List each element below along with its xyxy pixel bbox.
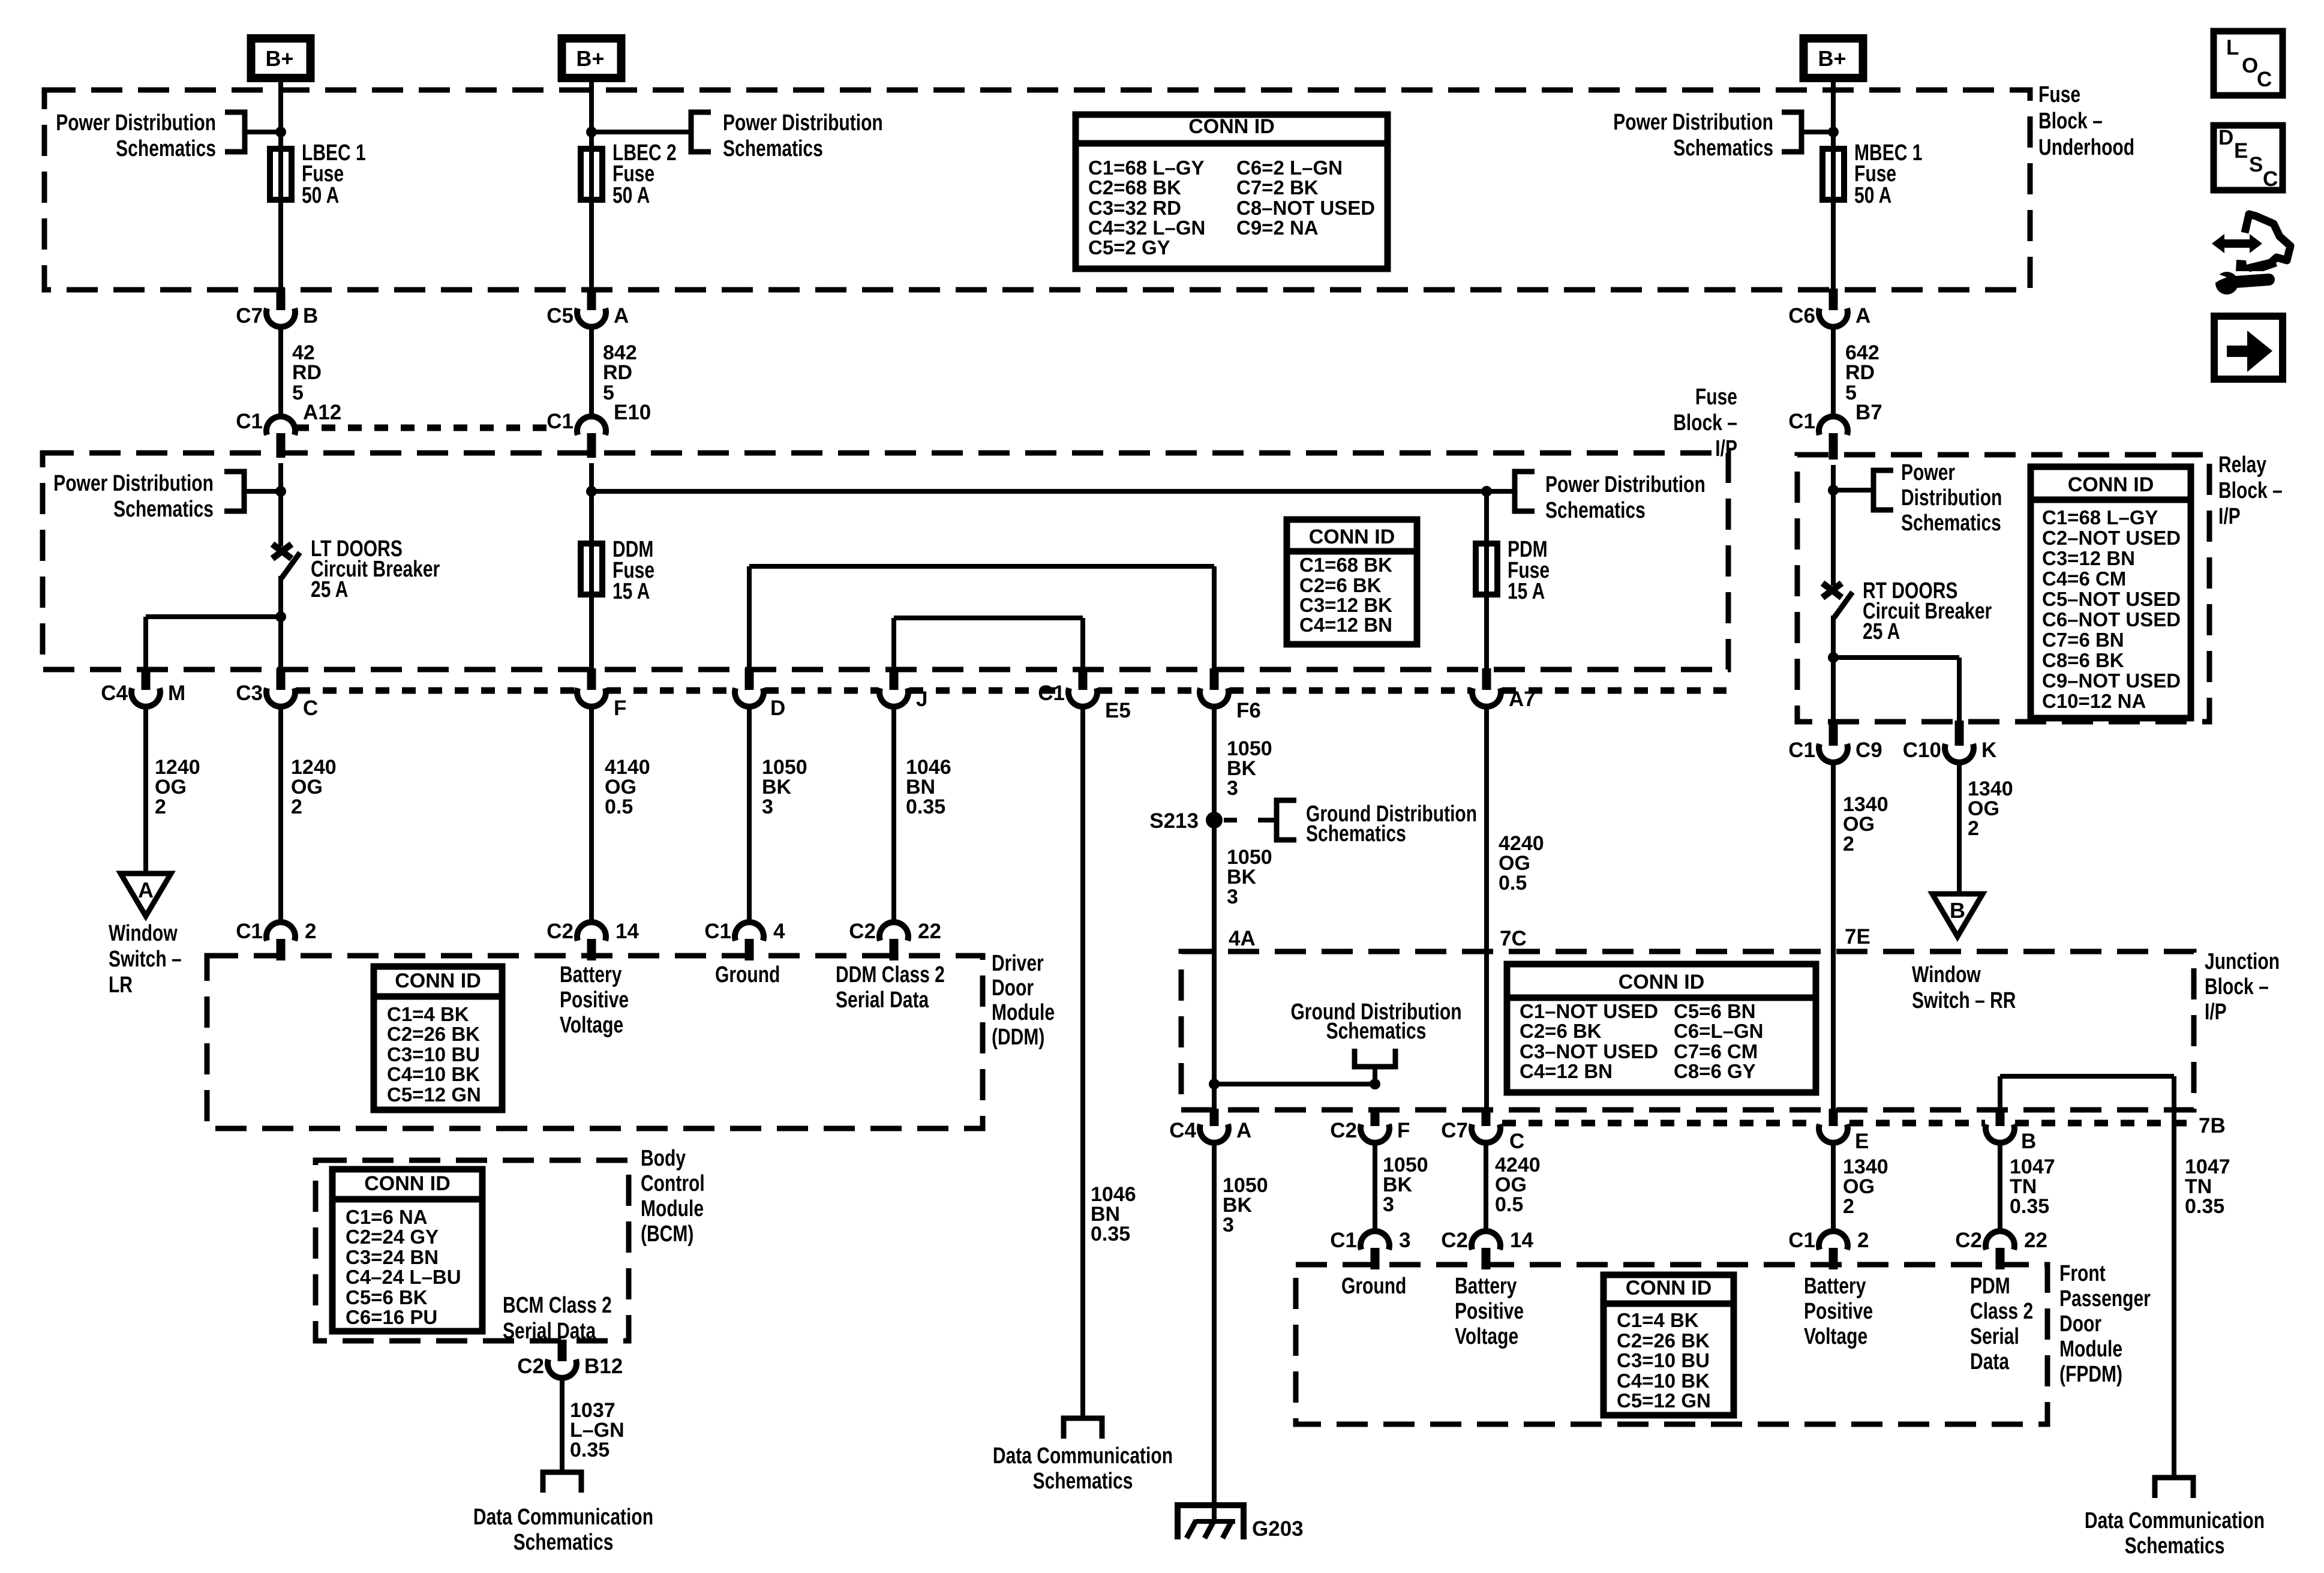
svg-text:C5: C5 (547, 304, 574, 328)
svg-text:Control: Control (641, 1171, 705, 1196)
svg-text:E: E (1855, 1130, 1869, 1153)
svg-text:C1=4 BK: C1=4 BK (1617, 1309, 1699, 1331)
module box: Front Passenger Door Module (FPDM) (1296, 1265, 2047, 1424)
svg-text:Relay: Relay (2218, 452, 2266, 478)
svg-text:C9: C9 (1855, 739, 1882, 762)
connector pin J (879, 668, 927, 711)
module box: Body Control Module (BCM) (316, 1160, 629, 1341)
power terminal B+ (MBEC 1 feed) (1804, 38, 1863, 78)
table CONN ID (DDM) (374, 966, 502, 1110)
svg-text:Power Distribution: Power Distribution (56, 110, 216, 136)
ground G203 symbol (1178, 1505, 1244, 1539)
icon: service wrench with arrows (2208, 214, 2290, 295)
svg-text:C2: C2 (849, 920, 876, 943)
junction node PDM fuse power tap (1481, 486, 1492, 497)
svg-text:B7: B7 (1855, 401, 1882, 424)
svg-text:Positive: Positive (1804, 1299, 1873, 1324)
svg-text:C4=10 BK: C4=10 BK (1617, 1370, 1710, 1392)
block box: Relay Block - I/P (1797, 455, 2209, 722)
fuse LBEC 2 50 A (581, 146, 602, 203)
icon: LOC box (2214, 31, 2283, 95)
block box: Fuse Block - I/P (43, 453, 1728, 670)
svg-text:Battery: Battery (1804, 1274, 1866, 1299)
svg-text:C8–NOT USED: C8–NOT USED (1236, 197, 1375, 219)
wire into DDM fuse (589, 463, 594, 541)
svg-text:2: 2 (291, 795, 302, 818)
svg-text:B+: B+ (265, 46, 293, 71)
svg-text:C9–NOT USED: C9–NOT USED (2042, 670, 2181, 692)
junction node LT DOORS branch (275, 611, 286, 622)
connector C4 pin M (101, 668, 185, 707)
reference bracket Power Distribution (I/P left) (224, 472, 244, 511)
svg-text:14: 14 (1510, 1229, 1533, 1252)
svg-text:Data Communication: Data Communication (993, 1443, 1173, 1469)
svg-text:C1=6 NA: C1=6 NA (346, 1206, 428, 1228)
connector C3 pin C (236, 668, 318, 720)
wire down to connector J (891, 618, 896, 670)
wire 1047 TN 0.35 (to FPDM) (1998, 1143, 2002, 1231)
wire to power distribution bracket (PDM) (1487, 489, 1515, 494)
wire bracket stem to ground tie (1373, 1067, 1377, 1084)
circuit breaker LT DOORS contact mark (272, 544, 292, 559)
svg-text:0.35: 0.35 (906, 795, 945, 818)
connector face dotted line F-D (607, 688, 734, 694)
svg-text:Schematics: Schematics (2125, 1533, 2225, 1559)
svg-text:S: S (2249, 153, 2263, 176)
wire into RT DOORS circuit breaker (1831, 465, 1836, 586)
svg-text:C10=12 NA: C10=12 NA (2042, 690, 2146, 712)
connector face dotted line C-F (296, 688, 576, 694)
svg-text:Window: Window (109, 921, 178, 946)
svg-text:CONN ID: CONN ID (1188, 115, 1275, 138)
svg-text:C9=2 NA: C9=2 NA (1236, 217, 1319, 239)
svg-text:C3–NOT USED: C3–NOT USED (1520, 1040, 1658, 1062)
reference bracket Power Distribution (LBEC 1) (225, 112, 245, 152)
connector C6 pin A (1788, 289, 1870, 328)
svg-text:CONN ID: CONN ID (1626, 1277, 1712, 1299)
svg-text:C2: C2 (1330, 1119, 1357, 1142)
svg-text:C1: C1 (1038, 682, 1065, 705)
svg-text:C1=68 L–GY: C1=68 L–GY (2042, 506, 2158, 529)
svg-text:C4=6 CM: C4=6 CM (2042, 568, 2126, 590)
junction node ground tie (4A wire) (1209, 1079, 1220, 1089)
svg-text:A: A (138, 878, 154, 902)
wire branch to C4-M (146, 614, 281, 619)
svg-text:B: B (2021, 1130, 2036, 1153)
connector face dotted line F6-A7 (1230, 688, 1471, 694)
svg-text:Schematics: Schematics (1033, 1469, 1133, 1494)
svg-text:C1=68 L–GY: C1=68 L–GY (1088, 157, 1205, 179)
svg-text:B: B (303, 304, 318, 328)
svg-text:C4–24 L–BU: C4–24 L–BU (346, 1266, 461, 1288)
svg-text:15 A: 15 A (1508, 579, 1545, 604)
fuse MBEC 1 50 A (1822, 146, 1844, 203)
wire down to connector B (1998, 1076, 2002, 1110)
wire power bus to PDM fuse (1484, 491, 1489, 541)
svg-text:C1=68 BK: C1=68 BK (1299, 554, 1392, 576)
svg-text:Class 2: Class 2 (1970, 1299, 2033, 1324)
svg-text:Schematics: Schematics (116, 136, 216, 161)
connector C7 pin B (236, 289, 318, 328)
wire LBEC 2 fuse to connector C5-A (589, 203, 594, 290)
wire DDM fuse to connector F (589, 598, 594, 670)
reference bracket Ground Distribution (junction block) (1355, 1049, 1395, 1067)
svg-text:A7: A7 (1509, 688, 1536, 711)
reference bracket Data Communication (BCM) (543, 1472, 581, 1493)
circuit breaker RT DOORS contact mark (1822, 583, 1842, 598)
svg-text:Junction: Junction (2205, 949, 2280, 974)
svg-text:C5=12 GN: C5=12 GN (1617, 1389, 1711, 1412)
svg-text:C: C (2263, 167, 2278, 191)
connector C2 pin 14 (DDM) (547, 920, 639, 960)
wire LT DOORS breaker output (278, 576, 283, 670)
svg-text:Window: Window (1912, 962, 1981, 987)
svg-text:F: F (614, 697, 626, 720)
svg-text:K: K (1981, 739, 1996, 762)
svg-text:Schematics: Schematics (1545, 498, 1646, 523)
wire 42 RD 5 (278, 327, 283, 416)
svg-text:C3=12 BN: C3=12 BN (2042, 547, 2135, 569)
svg-text:B: B (1950, 898, 1965, 923)
connector face dotted line A7-right (1502, 688, 1727, 694)
svg-text:5: 5 (292, 382, 304, 404)
circuit breaker LT DOORS blade (281, 553, 300, 578)
svg-text:2: 2 (155, 795, 166, 818)
svg-text:A: A (1236, 1119, 1251, 1142)
wire 4140 OG 0.5 (589, 707, 594, 922)
svg-text:Module: Module (641, 1196, 704, 1221)
junction node col2 power distribution tap (586, 127, 597, 137)
fuse DDM 15 A (581, 541, 602, 598)
svg-text:Body: Body (641, 1146, 686, 1171)
svg-text:I/P: I/P (2218, 504, 2241, 529)
wire S213 reference link seg2 (1258, 818, 1277, 822)
svg-text:B+: B+ (1818, 46, 1846, 71)
svg-text:CONN ID: CONN ID (364, 1172, 451, 1195)
svg-text:C7: C7 (1441, 1119, 1468, 1142)
svg-text:(DDM): (DDM) (992, 1025, 1044, 1050)
svg-text:E10: E10 (614, 401, 651, 424)
reference bracket Power Distribution (LBEC 2) (691, 112, 711, 152)
wire 1240 OG 2 (to window switch LR) (143, 707, 148, 873)
wire 1340 OG 2 (to FPDM) (1831, 1143, 1836, 1231)
svg-text:Power: Power (1901, 460, 1955, 485)
junction node col3 power distribution tap (1828, 127, 1839, 137)
block box: Fuse Block - Underhood (44, 90, 2030, 290)
wire 1240 OG 2 (to DDM) (278, 707, 283, 922)
svg-text:C5=6 BK: C5=6 BK (346, 1286, 428, 1308)
svg-text:3: 3 (1383, 1193, 1394, 1216)
svg-text:B+: B+ (576, 46, 604, 71)
reference bracket Power Distribution (MBEC 1) (1782, 112, 1801, 152)
svg-text:C2: C2 (547, 920, 574, 943)
splice S213 (1206, 812, 1223, 828)
junction node col1 I/P power tap (275, 486, 286, 497)
svg-text:Positive: Positive (1455, 1299, 1524, 1324)
svg-text:G203: G203 (1252, 1517, 1304, 1541)
svg-text:3: 3 (1223, 1214, 1234, 1236)
wire S213 reference link seg1 (1224, 818, 1237, 822)
svg-text:2: 2 (1857, 1229, 1869, 1252)
fuse LBEC 1 50 A (270, 146, 292, 203)
svg-text:O: O (2242, 54, 2258, 77)
svg-text:C2: C2 (1441, 1229, 1468, 1252)
svg-text:C2=26 BK: C2=26 BK (387, 1023, 480, 1045)
connector C2 pin F (1330, 1109, 1410, 1143)
svg-text:C7=6 CM: C7=6 CM (1674, 1040, 1758, 1062)
svg-text:2: 2 (1843, 833, 1854, 855)
svg-text:(FPDM): (FPDM) (2059, 1362, 2122, 1387)
svg-text:C: C (1509, 1130, 1524, 1153)
svg-text:C6=2 L–GN: C6=2 L–GN (1236, 157, 1343, 179)
svg-text:C3=10 BU: C3=10 BU (1617, 1349, 1710, 1371)
svg-text:0.35: 0.35 (1091, 1223, 1130, 1245)
reference bracket Ground Distribution (S213) (1277, 800, 1296, 840)
connector C1 pin B7 (1788, 401, 1882, 460)
svg-text:3: 3 (1227, 777, 1238, 800)
wire PDM fuse to connector A7 (1484, 598, 1489, 670)
svg-text:C2: C2 (517, 1355, 544, 1378)
connector C1 pin 2 (FPDM) (1788, 1229, 1869, 1269)
table CONN ID (Junction Block - I/P) (1507, 964, 1816, 1092)
svg-text:BCM Class 2: BCM Class 2 (503, 1293, 612, 1318)
connector pin E (1819, 1109, 1869, 1153)
svg-text:Module: Module (2059, 1337, 2122, 1362)
svg-text:A12: A12 (303, 401, 341, 424)
wire I/P power bus to PDM fuse (591, 489, 1487, 494)
svg-text:CONN ID: CONN ID (1619, 971, 1705, 993)
svg-text:RD: RD (292, 361, 322, 384)
svg-text:D: D (770, 697, 785, 720)
svg-text:22: 22 (918, 920, 941, 943)
table CONN ID (BCM) (332, 1169, 482, 1331)
off-page connector B (Window Switch - RR) (1932, 894, 1983, 936)
wire MBEC 1 fuse to connector C6-A (1831, 203, 1836, 290)
wire branch to C10-K (1833, 655, 1959, 660)
svg-text:C1: C1 (236, 920, 263, 943)
svg-text:Block –: Block – (2038, 109, 2103, 134)
svg-text:C3=32 RD: C3=32 RD (1088, 197, 1181, 219)
svg-text:I/P: I/P (1715, 436, 1737, 461)
svg-text:C4=32 L–GN: C4=32 L–GN (1088, 217, 1205, 239)
svg-text:C7: C7 (236, 304, 263, 328)
svg-text:C5–NOT USED: C5–NOT USED (2042, 588, 2181, 610)
svg-text:Block –: Block – (2218, 478, 2283, 503)
svg-text:(BCM): (BCM) (641, 1221, 693, 1247)
connector C4 pin A (1169, 1109, 1251, 1143)
junction node DDM fuse power tap (586, 486, 597, 497)
wire 1050 BK 3 (to G203) (1212, 1143, 1217, 1523)
module box: Driver Door Module (DDM) (207, 956, 983, 1128)
svg-text:B12: B12 (584, 1355, 623, 1378)
svg-text:LR: LR (109, 972, 133, 998)
svg-text:C1: C1 (1788, 410, 1815, 433)
svg-text:Serial Data: Serial Data (836, 987, 929, 1013)
connector C7 pin C (1441, 1109, 1524, 1153)
connector face dotted line J-E5 (909, 688, 1067, 694)
power terminal B+ (LBEC 2 feed) (562, 38, 621, 78)
svg-text:C3=12 BK: C3=12 BK (1299, 594, 1392, 616)
wire RT DOORS breaker output (1831, 616, 1836, 722)
wire down to connector C4-M (143, 617, 148, 670)
svg-text:C10: C10 (1903, 739, 1941, 762)
connector C2 pin 14 (FPDM) (1441, 1229, 1533, 1269)
svg-text:Driver: Driver (992, 951, 1044, 976)
wire 1050 BK 3 (to FPDM ground) (1373, 1143, 1377, 1231)
svg-text:2: 2 (305, 920, 316, 943)
svg-text:C4: C4 (1169, 1119, 1196, 1142)
junction node relay block power tap (1828, 485, 1839, 496)
svg-text:25 A: 25 A (311, 577, 348, 602)
svg-text:0.35: 0.35 (570, 1439, 609, 1461)
svg-text:Power Distribution: Power Distribution (53, 471, 214, 496)
svg-text:Data Communication: Data Communication (473, 1505, 653, 1530)
svg-text:Power Distribution: Power Distribution (1545, 472, 1706, 497)
wire 4240 OG 0.5 (to FPDM) (1484, 1143, 1488, 1231)
svg-text:Module: Module (992, 1000, 1055, 1025)
svg-text:C1=4 BK: C1=4 BK (387, 1003, 469, 1025)
wire 1046 BN 0.35 (to data comm) (1080, 707, 1085, 1418)
svg-text:DDM Class 2: DDM Class 2 (836, 962, 945, 987)
svg-text:Block –: Block – (2205, 974, 2269, 999)
svg-text:C3=24 BN: C3=24 BN (346, 1246, 439, 1268)
svg-text:Battery: Battery (1455, 1274, 1517, 1299)
svg-text:C2=68 BK: C2=68 BK (1088, 176, 1181, 199)
table CONN ID (Fuse Block - I/P) (1287, 520, 1417, 644)
wire to power distribution bracket (LBEC 2) (591, 130, 691, 134)
wire LBEC 1 fuse to connector C7-B (278, 203, 283, 290)
svg-text:A: A (1855, 304, 1870, 328)
wire 1050 BK 3 (F6 to junction block) (1212, 707, 1217, 1110)
table CONN ID (Relay Block - I/P) (2031, 467, 2191, 718)
wire to power distribution bracket (MBEC 1) (1801, 130, 1833, 134)
connector C1 pin 2 (DDM) (236, 920, 316, 960)
svg-text:C1: C1 (1788, 739, 1815, 762)
svg-text:RD: RD (603, 361, 632, 384)
connector C5 pin A (547, 289, 629, 328)
svg-text:C7=2 BK: C7=2 BK (1236, 176, 1319, 199)
connector C1 pin 4 (DDM) (704, 920, 785, 960)
svg-text:C5=12 GN: C5=12 GN (387, 1083, 481, 1106)
svg-text:Schematics: Schematics (514, 1530, 614, 1555)
svg-text:C3: C3 (236, 682, 263, 705)
svg-text:C3=10 BU: C3=10 BU (387, 1043, 480, 1065)
connector pin F6 (1200, 668, 1261, 722)
connector C1 pin C9 (1788, 721, 1882, 763)
svg-text:Positive: Positive (560, 987, 629, 1013)
svg-text:Power Distribution: Power Distribution (723, 110, 883, 136)
junction node RT DOORS branch (1828, 652, 1839, 663)
svg-text:Distribution: Distribution (1901, 485, 2002, 511)
table CONN ID (Fuse Block - Underhood) (1076, 115, 1388, 269)
svg-text:Block –: Block – (1673, 410, 1737, 436)
wire B+ to LBEC 1 fuse (278, 78, 283, 149)
svg-text:C4=10 BK: C4=10 BK (387, 1063, 480, 1085)
svg-text:PDM: PDM (1970, 1274, 2010, 1299)
wire 842 RD 5 (589, 327, 594, 416)
svg-text:C1: C1 (547, 410, 574, 433)
svg-text:0.35: 0.35 (2010, 1195, 2049, 1218)
svg-text:0.5: 0.5 (1495, 1193, 1523, 1216)
svg-text:Fuse: Fuse (2038, 82, 2080, 107)
svg-text:C8=6 BK: C8=6 BK (2042, 649, 2124, 671)
off-page connector A (Window Switch - LR) (121, 873, 171, 916)
svg-text:E: E (2234, 139, 2248, 163)
svg-text:Schematics: Schematics (1901, 511, 2001, 536)
wire down to connector F6 (1212, 566, 1217, 670)
wire 1046 BN 0.35 (DDM serial) (891, 707, 896, 922)
svg-text:0.35: 0.35 (2185, 1195, 2224, 1218)
svg-text:E5: E5 (1105, 699, 1131, 722)
wire 642 RD 5 (1831, 327, 1836, 416)
connector face dotted line B-7B (2015, 1120, 2187, 1127)
svg-text:C4: C4 (101, 682, 128, 705)
svg-text:C6=16 PU: C6=16 PU (346, 1306, 437, 1328)
wire 1050 BK 3 (DDM ground) (747, 707, 752, 922)
svg-text:J: J (916, 688, 927, 711)
svg-text:S213: S213 (1149, 809, 1199, 833)
svg-text:I/P: I/P (2205, 999, 2227, 1025)
svg-text:Power Distribution: Power Distribution (1613, 110, 1773, 135)
svg-text:D: D (2218, 126, 2233, 149)
wire to power distribution bracket (LT DOORS) (244, 489, 281, 494)
svg-text:Voltage: Voltage (1804, 1324, 1867, 1349)
svg-text:M: M (168, 682, 185, 705)
svg-text:Battery: Battery (560, 962, 621, 987)
connector pin F (577, 668, 626, 720)
svg-text:CONN ID: CONN ID (1309, 526, 1395, 548)
circuit breaker RT DOORS blade (1834, 592, 1852, 618)
connector pin D (735, 668, 785, 720)
svg-text:C1: C1 (704, 920, 731, 943)
svg-text:4: 4 (773, 920, 785, 943)
svg-text:Fuse: Fuse (1695, 385, 1737, 410)
svg-text:C1: C1 (1330, 1229, 1357, 1252)
junction node ground tie (F wire) (1370, 1079, 1380, 1089)
svg-text:Voltage: Voltage (1455, 1324, 1518, 1349)
reference bracket Power Distribution (PDM) (1515, 472, 1535, 511)
svg-text:C2=6 BK: C2=6 BK (1520, 1020, 1602, 1042)
svg-text:C2–NOT USED: C2–NOT USED (2042, 527, 2181, 549)
svg-text:25 A: 25 A (1863, 619, 1900, 644)
svg-text:14: 14 (615, 920, 639, 943)
svg-text:5: 5 (603, 382, 614, 404)
svg-text:C6: C6 (1788, 304, 1815, 328)
connector C1 pin E5 (1038, 668, 1131, 722)
svg-text:F: F (1397, 1119, 1410, 1142)
svg-text:3: 3 (1399, 1229, 1410, 1252)
connector face dotted line E5-F6 (1098, 688, 1199, 694)
svg-text:RD: RD (1845, 361, 1875, 384)
connector face dotted line E-B (1849, 1120, 1985, 1127)
svg-text:Ground: Ground (1341, 1274, 1406, 1299)
wire 1047 TN 0.35 (to data comm) (2172, 1076, 2176, 1478)
reference bracket Data Communication (1047) (2155, 1478, 2193, 1498)
svg-text:7C: 7C (1500, 927, 1527, 950)
connector C10 pin K (1903, 721, 1997, 763)
wire down to connector C10-K (1957, 658, 1962, 722)
junction node col1 power distribution tap (275, 127, 286, 137)
svg-text:A: A (614, 304, 629, 328)
svg-text:Passenger: Passenger (2059, 1286, 2151, 1311)
svg-text:C8=6 GY: C8=6 GY (1674, 1060, 1756, 1082)
svg-text:15 A: 15 A (612, 579, 650, 604)
icon: DESC box (2214, 125, 2283, 191)
svg-text:Front: Front (2059, 1261, 2106, 1286)
svg-text:2: 2 (1968, 817, 1979, 840)
svg-text:3: 3 (762, 795, 773, 818)
connector C2 pin 22 (DDM) (849, 920, 941, 960)
